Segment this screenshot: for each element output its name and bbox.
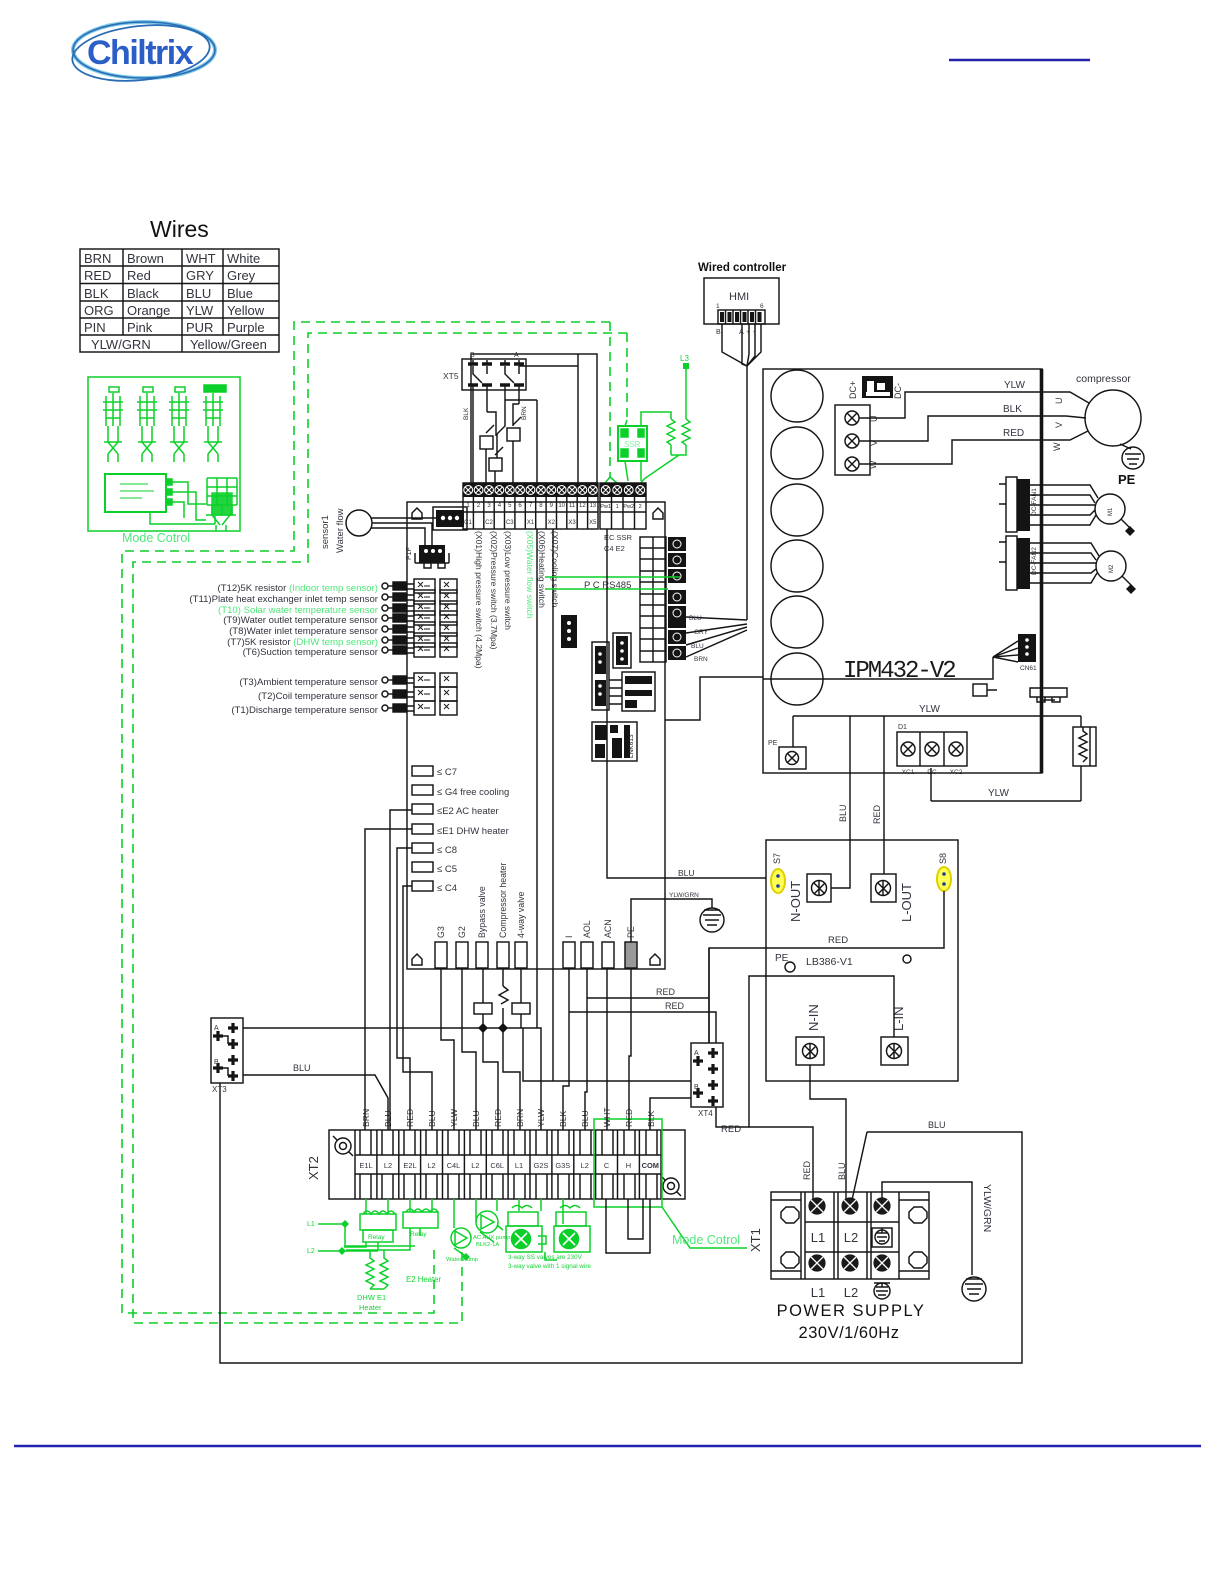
svg-text:RED: RED [84,268,111,283]
DC link connector [848,376,903,399]
wire: G2 to XT2 BLU3 [462,968,476,1130]
svg-text:EC SSR: EC SSR [604,533,633,542]
Mode Control callout (green) [662,1207,747,1248]
svg-text:W: W [1052,442,1062,451]
svg-text:XT1: XT1 [748,1228,763,1252]
board mounting holes [412,508,663,965]
svg-text:(T1)Discharge temperature sens: (T1)Discharge temperature sensor [231,705,378,716]
svg-text:WHT: WHT [186,251,216,266]
svg-text:L1: L1 [307,1221,315,1228]
svg-text:Compressor heater: Compressor heater [498,863,508,938]
temperature sensor connector rows T12..T6 and T3..T1 [382,579,457,715]
breaker pole pins [468,364,524,385]
svg-text:BRN: BRN [521,406,528,420]
HMI cable wires converging [722,324,761,366]
svg-text:(T3)Ambient temperature sensor: (T3)Ambient temperature sensor [239,677,378,688]
svg-text:(T6)Suction temperature sensor: (T6)Suction temperature sensor [243,647,379,658]
svg-text:BRN: BRN [694,656,708,663]
XT2 terminal strip [306,1130,685,1199]
svg-text:3-way SS valves are 230V: 3-way SS valves are 230V [508,1254,583,1261]
svg-text:≤ C8: ≤ C8 [437,845,457,856]
drops from terminals [366,1199,563,1228]
svg-text:5: 5 [508,503,512,509]
S8 highlighted connector [937,867,951,891]
XT3 signal bus [243,1028,541,1130]
wire: relay C4 to XT2 BLU2 [403,886,432,1130]
svg-text:4: 4 [498,503,502,509]
svg-text:3: 3 [487,503,491,509]
svg-text:N-OUT: N-OUT [788,881,803,922]
green wiring below XT2 [366,1199,563,1228]
svg-text:L2: L2 [844,1285,858,1300]
SSR outputs to terminals [625,461,641,481]
Chiltrix logo [70,19,215,87]
svg-text:YLW: YLW [988,788,1009,799]
compressor terminal block W V U [835,405,879,475]
svg-text:XC1: XC1 [902,769,915,776]
svg-text:YLW/GRN: YLW/GRN [669,892,699,899]
wire: bypass valve via capacitor to XT2 RED2 [483,968,498,1130]
green fan-in wires to terminal block [605,420,627,483]
svg-text:C: C [604,1161,610,1170]
svg-text:XT3: XT3 [212,1085,227,1094]
svg-text:BRN: BRN [361,1109,371,1127]
svg-text:DC+: DC+ [848,381,858,399]
svg-text:Water Pump: Water Pump [446,1257,478,1263]
svg-text:1: 1 [716,303,720,310]
capacitor 4way [512,1003,530,1014]
switch contact symbols [480,436,493,449]
main terminal strip (13 poles) [463,483,598,529]
svg-text:N-IN: N-IN [806,1004,821,1031]
svg-text:B: B [214,1059,219,1066]
svg-text:C6L: C6L [490,1161,504,1170]
water pump 1 (green) [451,1228,471,1261]
svg-text:L2: L2 [307,1248,315,1255]
PE1 screw terminal [768,740,806,769]
svg-text:X2: X2 [548,520,556,526]
svg-text:S7: S7 [772,853,782,864]
svg-text:6: 6 [518,503,522,509]
svg-text:RED: RED [1003,428,1024,439]
svg-text:L2: L2 [581,1161,589,1170]
svg-text:YLW/GRN: YLW/GRN [981,1184,993,1232]
svg-text:YLW/GRN: YLW/GRN [91,337,151,352]
board to IPM link wire [665,677,763,720]
inner green dashed cable boundary [133,333,627,1323]
svg-text:Relay: Relay [368,1234,385,1241]
mode box controller unit [105,474,196,518]
P C RS485 connector column [640,537,666,662]
svg-text:L1: L1 [811,1230,825,1245]
svg-text:ORG: ORG [84,303,114,318]
svg-text:PE: PE [775,953,789,964]
svg-text:G3: G3 [436,926,446,938]
svg-text:RED: RED [721,1124,741,1135]
svg-text:X3: X3 [568,520,576,526]
SSR block (green) [618,426,647,461]
svg-text:L2: L2 [471,1161,479,1170]
IPM432-V2 inverter board [763,369,1042,773]
svg-text:≤ G4 free cooling: ≤ G4 free cooling [437,787,509,798]
svg-text:B: B [470,352,475,359]
N-IN terminal [796,1004,824,1065]
svg-text:I: I [564,936,574,938]
wire: I to RED bus and XT2 BLK [563,968,569,1130]
svg-text:Brown: Brown [127,251,164,266]
svg-text:Grey: Grey [227,268,256,283]
XT3 service connector [211,1018,243,1094]
svg-text:Pw1: Pw1 [600,504,611,510]
L3 wire down to coil [685,369,687,419]
svg-text:XT4: XT4 [698,1109,713,1118]
svg-text:6: 6 [760,303,764,310]
svg-text:D1: D1 [898,724,907,731]
svg-text:BLK: BLK [84,286,109,301]
screws top row [809,1198,890,1271]
terminal labels [359,1161,659,1170]
3-way valve 2 (green) [545,1206,590,1261]
svg-text:RED: RED [665,1001,685,1011]
AC output terminal block [897,724,967,776]
3-way valve 1 (green) [506,1206,546,1253]
svg-text:DC-FAN1: DC-FAN1 [1031,488,1038,516]
svg-text:BLU: BLU [837,1162,847,1180]
svg-text:BLU: BLU [838,804,848,822]
L-IN feed wire [749,976,894,1204]
BLU loop wire from XT1 area to XT3 [220,1083,1022,1363]
L-OUT terminal [871,874,914,922]
svg-text:G2S: G2S [534,1161,549,1170]
svg-text:C2: C2 [485,520,493,526]
svg-text:8: 8 [539,503,543,509]
RED link wire upper [587,948,709,1043]
switch wires from XT5 down to strip [473,390,521,483]
compressor PE earth [1120,444,1131,449]
svg-text:M2: M2 [1109,564,1115,573]
earth symbol in block [872,1228,892,1247]
BLU wire IPM to LB386 [831,716,850,888]
clamp detail lines [360,1130,657,1199]
wire: G3 to XT2 YLW [441,968,454,1130]
end mounting screws [333,1136,681,1196]
svg-text:L1: L1 [515,1161,523,1170]
svg-text:Pink: Pink [127,320,153,335]
middle labels [811,1230,858,1245]
svg-text:C4L: C4L [447,1161,461,1170]
svg-text:X5: X5 [589,520,597,526]
svg-text:≤ C7: ≤ C7 [437,767,457,778]
chassis earth symbol [700,908,724,932]
svg-text:(X06)Heating switch: (X06)Heating switch [537,531,547,608]
svg-text:YLW: YLW [919,704,940,715]
IC / barcode block [592,722,637,761]
wire: ACN to XT2 WHT [606,968,608,1130]
svg-text:(T11)Plate heat exchanger inle: (T11)Plate heat exchanger inlet temp sen… [189,594,378,605]
svg-text:10: 10 [558,503,565,509]
svg-text:Pw2: Pw2 [623,504,634,510]
RED link wire lower [569,1012,716,1043]
P C RS485 green link lines [545,577,680,589]
svg-text:E1L: E1L [359,1161,372,1170]
svg-text:BLU: BLU [689,615,702,622]
svg-text:LNK613: LNK613 [628,734,635,758]
aux pump (green) [476,1211,503,1242]
svg-text:AOL: AOL [582,920,592,938]
N-IN feed wire [810,1065,846,1204]
svg-text:H: H [626,1161,631,1170]
svg-text:ACN: ACN [603,919,613,938]
svg-text:(T9)Water outlet temperature s: (T9)Water outlet temperature sensor [223,615,379,626]
svg-text:XT2: XT2 [306,1156,321,1180]
dashed drop to SSR (inner) [626,333,628,420]
svg-text:S8: S8 [938,853,948,864]
long internal verticals from switch terminals [537,529,553,1081]
svg-text:sensor1: sensor1 [320,515,331,549]
svg-text:Purple: Purple [227,320,265,335]
svg-text:Orange: Orange [127,303,170,318]
svg-text:SSR: SSR [624,440,641,449]
svg-text:DC-FAN2: DC-FAN2 [1031,547,1038,575]
mode controller box (green) [88,377,240,531]
aux connector at IPM right [993,634,1037,672]
svg-text:G3S: G3S [555,1161,570,1170]
svg-text:COM: COM [642,1161,659,1170]
svg-text:X1: X1 [527,520,535,526]
svg-text:Wired controller: Wired controller [698,262,787,274]
main controller board outline [407,502,665,969]
svg-text:13: 13 [589,503,596,509]
svg-text:DHW E1: DHW E1 [357,1293,386,1302]
svg-text:LB386-V1: LB386-V1 [806,956,853,968]
YLW/GRN earth wire [882,1182,972,1275]
svg-text:GRY: GRY [694,629,709,636]
relay block [609,672,655,711]
svg-text:RED: RED [802,1160,812,1180]
svg-text:E2L: E2L [403,1161,416,1170]
wire: relay C8 to XT2 RED [397,848,412,1130]
svg-text:L-OUT: L-OUT [899,883,914,922]
auxiliary terminal strip (4 poles) [600,483,646,529]
svg-text:B: B [694,1084,699,1091]
RED wire IPM to LB386 [883,716,885,874]
svg-text:compressor: compressor [1076,373,1131,385]
junction dots [478,1023,508,1033]
wire: relay E2 to XT2 BLU [390,810,412,1130]
svg-text:230V/1/60Hz: 230V/1/60Hz [799,1324,900,1342]
end plate hexagon holes [781,1207,799,1268]
sensor labels column [189,583,378,716]
relay output boxes C7..C4 [412,766,433,891]
svg-text:7: 7 [529,503,533,509]
svg-text:PE: PE [1118,472,1136,487]
XT1 power terminal block [748,1192,929,1279]
svg-text:BLK: BLK [1003,404,1022,415]
relay 2 (E2) green [346,1209,438,1250]
extra feed wires inside enclosure [505,354,578,483]
IPM heatsink circles [771,370,823,705]
small connector [613,633,631,668]
svg-text:YLW: YLW [186,303,214,318]
svg-text:DC: DC [927,769,937,776]
svg-text:BLU: BLU [691,643,704,650]
svg-text:(X03)Low pressure switch: (X03)Low pressure switch [503,531,513,630]
wire: AOL to XT2 BLU4 [585,968,587,1130]
svg-text:4-way valve: 4-way valve [516,891,526,938]
external earth electrode [962,1277,986,1301]
svg-text:A: A [514,352,519,359]
svg-text:Chiltrix: Chiltrix [87,34,194,72]
each row: lead circle + plug + two on-board headers [382,579,457,593]
XT4 service connector [691,1043,723,1118]
dashed drop to terminal block (outer) [609,322,611,477]
svg-text:L1: L1 [811,1285,825,1300]
wire colour labels [1003,380,1025,439]
svg-text:≤E1 DHW heater: ≤E1 DHW heater [437,826,509,837]
XT5 connector block [443,352,526,390]
PE earth wire from board [631,899,712,942]
rotated connector labels [436,863,636,938]
SSR to coil wire [641,412,671,426]
wires W V U to compressor [859,392,1089,464]
fan 2 motor [1030,543,1136,594]
svg-text:≤ C4: ≤ C4 [437,883,457,894]
svg-text:BLU: BLU [928,1120,946,1130]
svg-text:BLU: BLU [293,1063,311,1073]
svg-text:9: 9 [550,503,554,509]
XT4 lower RED jog [716,1107,749,1127]
svg-text:2: 2 [477,503,481,509]
svg-text:(X07)Cooling switch: (X07)Cooling switch [550,531,560,608]
LB386-V1 filter board [766,840,958,1081]
EC SSR / C4 E2 labels [604,533,633,553]
L-IN terminal [881,1006,908,1065]
connector block P9 [592,642,609,710]
rotated pressure/flow switch labels [474,531,560,669]
water flow sensor [320,508,436,553]
svg-text:C3: C3 [506,520,514,526]
reactor / coil box right of IPM [931,716,1096,801]
terminal dividers [377,1130,640,1199]
svg-text:3-way valve with 1 signal wire: 3-way valve with 1 signal wire [508,1263,591,1270]
svg-text:B: B [716,329,721,336]
mode box small grid connector [150,478,237,531]
fan 1 connector [999,477,1038,532]
svg-text:A: A [214,1025,219,1032]
svg-text:BLK: BLK [463,407,470,420]
top right blue rule [949,59,1090,61]
svg-text:Red: Red [127,268,151,283]
resistor zigzag [499,986,508,1004]
wire colour tags at RS485 [689,615,709,663]
svg-text:(T2)Coil temperature sensor: (T2)Coil temperature sensor [258,691,379,702]
svg-text:GRY: GRY [186,268,214,283]
wire colour labels above XT2 [361,1107,656,1127]
C H COM loop wires below strip [606,1199,650,1253]
svg-text:Bypass valve: Bypass valve [477,886,487,938]
svg-text:(T8)Water inlet temperature se: (T8)Water inlet temperature sensor [229,626,379,637]
svg-text:M1: M1 [1108,507,1114,516]
wire: relay E1 to XT2 BRN [365,829,412,1130]
svg-text:HMI: HMI [729,291,749,303]
svg-text:PIN: PIN [84,320,106,335]
YLW bus wire across IPM bottom [793,716,1081,747]
svg-text:(X01)High pressure switch (4.2: (X01)High pressure switch (4.2Mpa) [474,531,484,669]
cable fan out to RS485 connector [686,617,747,657]
svg-text:AC AUX pump: AC AUX pump [473,1235,510,1241]
HMI box [704,278,779,324]
svg-text:Wires: Wires [150,216,209,242]
connector P1F below [406,545,449,568]
outer green dashed cable boundary [122,322,610,1313]
svg-text:Water flow: Water flow [335,508,346,553]
HMI pin id marks [716,329,756,336]
svg-text:1: 1 [616,504,619,510]
fan 2 connector [999,536,1038,590]
svg-text:Heater: Heater [359,1303,382,1312]
svg-text:IPM432-V2: IPM432-V2 [843,658,955,685]
relay 1 (DHW) green [344,1211,396,1250]
svg-text:PUR: PUR [186,320,213,335]
mode box connector glyph 4 [203,385,226,462]
IPM thick right edge [1040,369,1044,773]
wire into S7 from left [607,529,766,878]
compressor [1052,373,1144,487]
svg-text:(X02)Pressure switch (3.7Mpa): (X02)Pressure switch (3.7Mpa) [489,531,499,650]
svg-text:C1: C1 [464,520,472,526]
wire: compressor heater via resistor to XT2 BRN2 [503,968,520,1130]
connector P1E on board [433,507,467,530]
svg-text:Yellow: Yellow [227,303,265,318]
svg-text:L2: L2 [427,1161,435,1170]
svg-text:≤ C5: ≤ C5 [437,864,457,875]
svg-text:G2: G2 [457,926,467,938]
svg-text:DC-: DC- [893,383,903,399]
svg-text:P1F: P1F [406,547,413,560]
svg-text:YLW: YLW [1004,380,1025,391]
HMI pin header [718,310,765,324]
svg-text:RED: RED [828,935,848,946]
svg-text:XC2: XC2 [950,769,963,776]
svg-text:BLK2-1A: BLK2-1A [476,1242,499,1248]
svg-text:L2: L2 [844,1230,858,1245]
coil (green) right [641,419,690,483]
DHW E1 heater element (green) [366,1250,388,1289]
svg-text:BLU: BLU [186,286,211,301]
svg-text:Black: Black [127,286,159,301]
N-OUT terminal [788,874,831,922]
mode box connector glyph 3 [169,387,189,462]
svg-text:BLU: BLU [678,868,695,878]
small part at IPM bottom edge [973,684,1067,702]
svg-text:Yellow/Green: Yellow/Green [190,337,267,352]
svg-text:11: 11 [569,503,576,509]
capacitor bypass [474,1003,492,1014]
svg-text:(T12)5K resistor (Indoor temp: (T12)5K resistor (Indoor temp sensor) [218,583,379,594]
S7 highlighted connector [771,869,785,893]
svg-text:E2 Heater: E2 Heater [406,1275,442,1284]
svg-text:CN61: CN61 [1020,665,1037,672]
svg-text:Mode Cotrol: Mode Cotrol [672,1233,740,1247]
svg-text:RED: RED [872,804,882,824]
bottom blue rule [14,1445,1201,1448]
XT4 to XT2 BLK wire [650,1098,691,1130]
svg-text:A: A [694,1050,699,1057]
svg-text:Mode Cotrol: Mode Cotrol [122,531,190,545]
internal bus wire to aux connector [763,657,993,679]
svg-text:Blue: Blue [227,286,253,301]
svg-text:U: U [1054,398,1064,405]
